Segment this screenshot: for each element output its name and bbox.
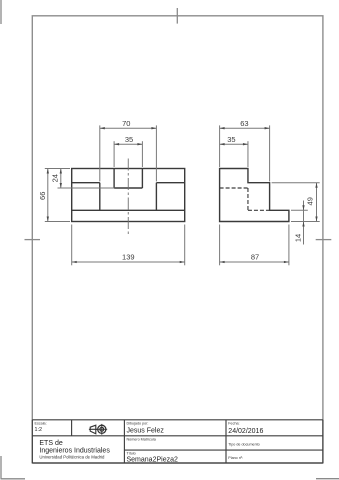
svg-text:Escala:: Escala: xyxy=(35,422,47,426)
svg-text:ETS de: ETS de xyxy=(39,440,62,447)
front view outline xyxy=(72,169,185,222)
svg-text:Dibujado por:: Dibujado por: xyxy=(127,422,149,426)
front view vertical centerline xyxy=(127,159,129,235)
svg-text:14: 14 xyxy=(294,234,303,242)
centering mark right xyxy=(316,239,332,241)
svg-text:Fecha:: Fecha: xyxy=(228,422,239,426)
svg-text:Universidad Politécnica de Mad: Universidad Politécnica de Madrid xyxy=(39,454,105,459)
svg-text:Tipo de documento: Tipo de documento xyxy=(228,443,259,447)
front view notch left wall xyxy=(113,169,115,189)
svg-text:49: 49 xyxy=(305,197,314,205)
projection symbol cone xyxy=(89,425,97,434)
svg-text:139: 139 xyxy=(122,252,135,261)
title block outline xyxy=(32,420,323,463)
dimension 49 xyxy=(272,183,320,222)
projection symbol circles xyxy=(96,424,107,435)
dimension 35 (front) xyxy=(114,141,142,167)
svg-text:70: 70 xyxy=(122,119,130,128)
front view notch right wall xyxy=(141,169,143,189)
front view base line xyxy=(72,209,185,211)
front view left step vertical xyxy=(99,183,101,211)
svg-text:87: 87 xyxy=(251,252,259,261)
svg-text:63: 63 xyxy=(240,119,248,128)
svg-text:Semana2Pieza2: Semana2Pieza2 xyxy=(127,457,178,464)
dimension 139 xyxy=(72,225,185,266)
dimension 14 xyxy=(291,201,308,245)
svg-text:24/02/2016: 24/02/2016 xyxy=(228,428,263,435)
centering mark top xyxy=(176,8,178,24)
svg-text:35: 35 xyxy=(125,135,133,144)
svg-text:Ingenieros Industriales: Ingenieros Industriales xyxy=(39,447,110,454)
side view hidden notch bottom xyxy=(220,187,248,189)
svg-text:66: 66 xyxy=(38,192,47,200)
dimension 35 (side) xyxy=(220,141,248,167)
centering mark left xyxy=(25,239,41,241)
trim mark bottom-left xyxy=(1,456,26,479)
side view hidden notch wall xyxy=(247,188,249,210)
trim mark top-left xyxy=(0,0,2,24)
front view right step line xyxy=(156,182,184,184)
svg-text:24: 24 xyxy=(50,174,59,182)
dimension 63 xyxy=(220,125,270,181)
dimension 66 xyxy=(45,169,70,222)
svg-text:1:2: 1:2 xyxy=(35,427,43,433)
dimension 24 xyxy=(58,169,115,189)
svg-text:Número Matrícula: Número Matrícula xyxy=(127,438,157,442)
front view notch bottom xyxy=(114,187,142,189)
side view hidden base edge xyxy=(248,209,270,211)
svg-text:Plano nº:: Plano nº: xyxy=(228,456,243,460)
trim mark bottom-right xyxy=(316,478,339,480)
dimension 87 xyxy=(220,225,289,266)
svg-text:Jesus Felez: Jesus Felez xyxy=(127,427,165,434)
front view left step line xyxy=(72,182,100,184)
side view outline xyxy=(220,169,289,222)
front view right step vertical xyxy=(155,183,157,211)
svg-text:35: 35 xyxy=(227,135,235,144)
svg-text:Título: Título xyxy=(127,451,136,455)
dimension 70 xyxy=(100,125,157,181)
drawing frame xyxy=(32,16,323,463)
